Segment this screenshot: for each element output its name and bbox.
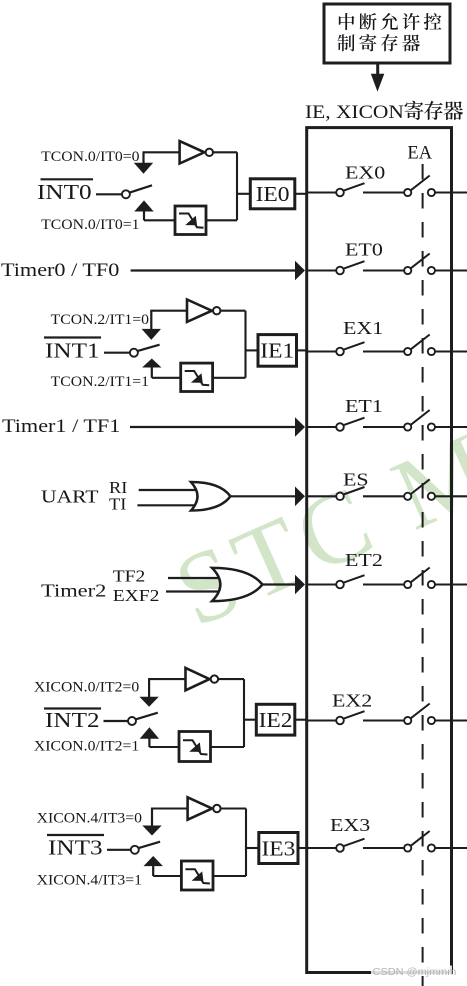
svg-text:EA: EA [407,144,432,164]
svg-text:XICON.0/IT2=0: XICON.0/IT2=0 [34,680,139,695]
svg-text:INT1: INT1 [45,339,100,363]
svg-text:EX3: EX3 [330,816,370,836]
svg-text:IE3: IE3 [261,836,295,860]
svg-text:ET0: ET0 [345,240,383,260]
svg-text:INT0: INT0 [37,181,92,205]
svg-text:TCON.0/IT0=0: TCON.0/IT0=0 [41,150,139,165]
svg-text:Timer1 / TF1: Timer1 / TF1 [2,417,120,437]
svg-text:INT3: INT3 [48,836,103,860]
svg-text:IE0: IE0 [256,182,290,206]
svg-text:ET1: ET1 [345,397,383,417]
svg-text:UART: UART [41,487,98,507]
svg-text:ES: ES [343,470,369,490]
svg-text:TCON.2/IT1=0: TCON.2/IT1=0 [51,313,149,328]
svg-text:TCON.2/IT1=1: TCON.2/IT1=1 [51,375,149,390]
svg-text:Timer2: Timer2 [41,581,106,600]
svg-text:EX0: EX0 [345,163,385,183]
svg-text:IE1: IE1 [260,339,294,363]
svg-text:EXF2: EXF2 [113,586,160,605]
svg-text:EX1: EX1 [343,319,383,339]
svg-text:INT2: INT2 [45,709,100,733]
svg-text:IE, XICON: IE, XICON [305,102,404,123]
svg-text:TI: TI [109,494,126,513]
svg-text:IE2: IE2 [259,708,293,732]
svg-text:XICON.4/IT3=0: XICON.4/IT3=0 [37,811,142,826]
svg-text:TF2: TF2 [113,567,146,586]
svg-text:CSDN @mjmmm: CSDN @mjmmm [373,966,457,978]
svg-text:XICON.0/IT2=1: XICON.0/IT2=1 [34,739,139,754]
svg-text:ET2: ET2 [345,551,383,571]
svg-text:Timer0 / TF0: Timer0 / TF0 [1,261,119,281]
svg-text:EX2: EX2 [332,691,372,711]
svg-text:TCON.0/IT0=1: TCON.0/IT0=1 [41,218,139,233]
svg-text:XICON.4/IT3=1: XICON.4/IT3=1 [37,873,142,888]
